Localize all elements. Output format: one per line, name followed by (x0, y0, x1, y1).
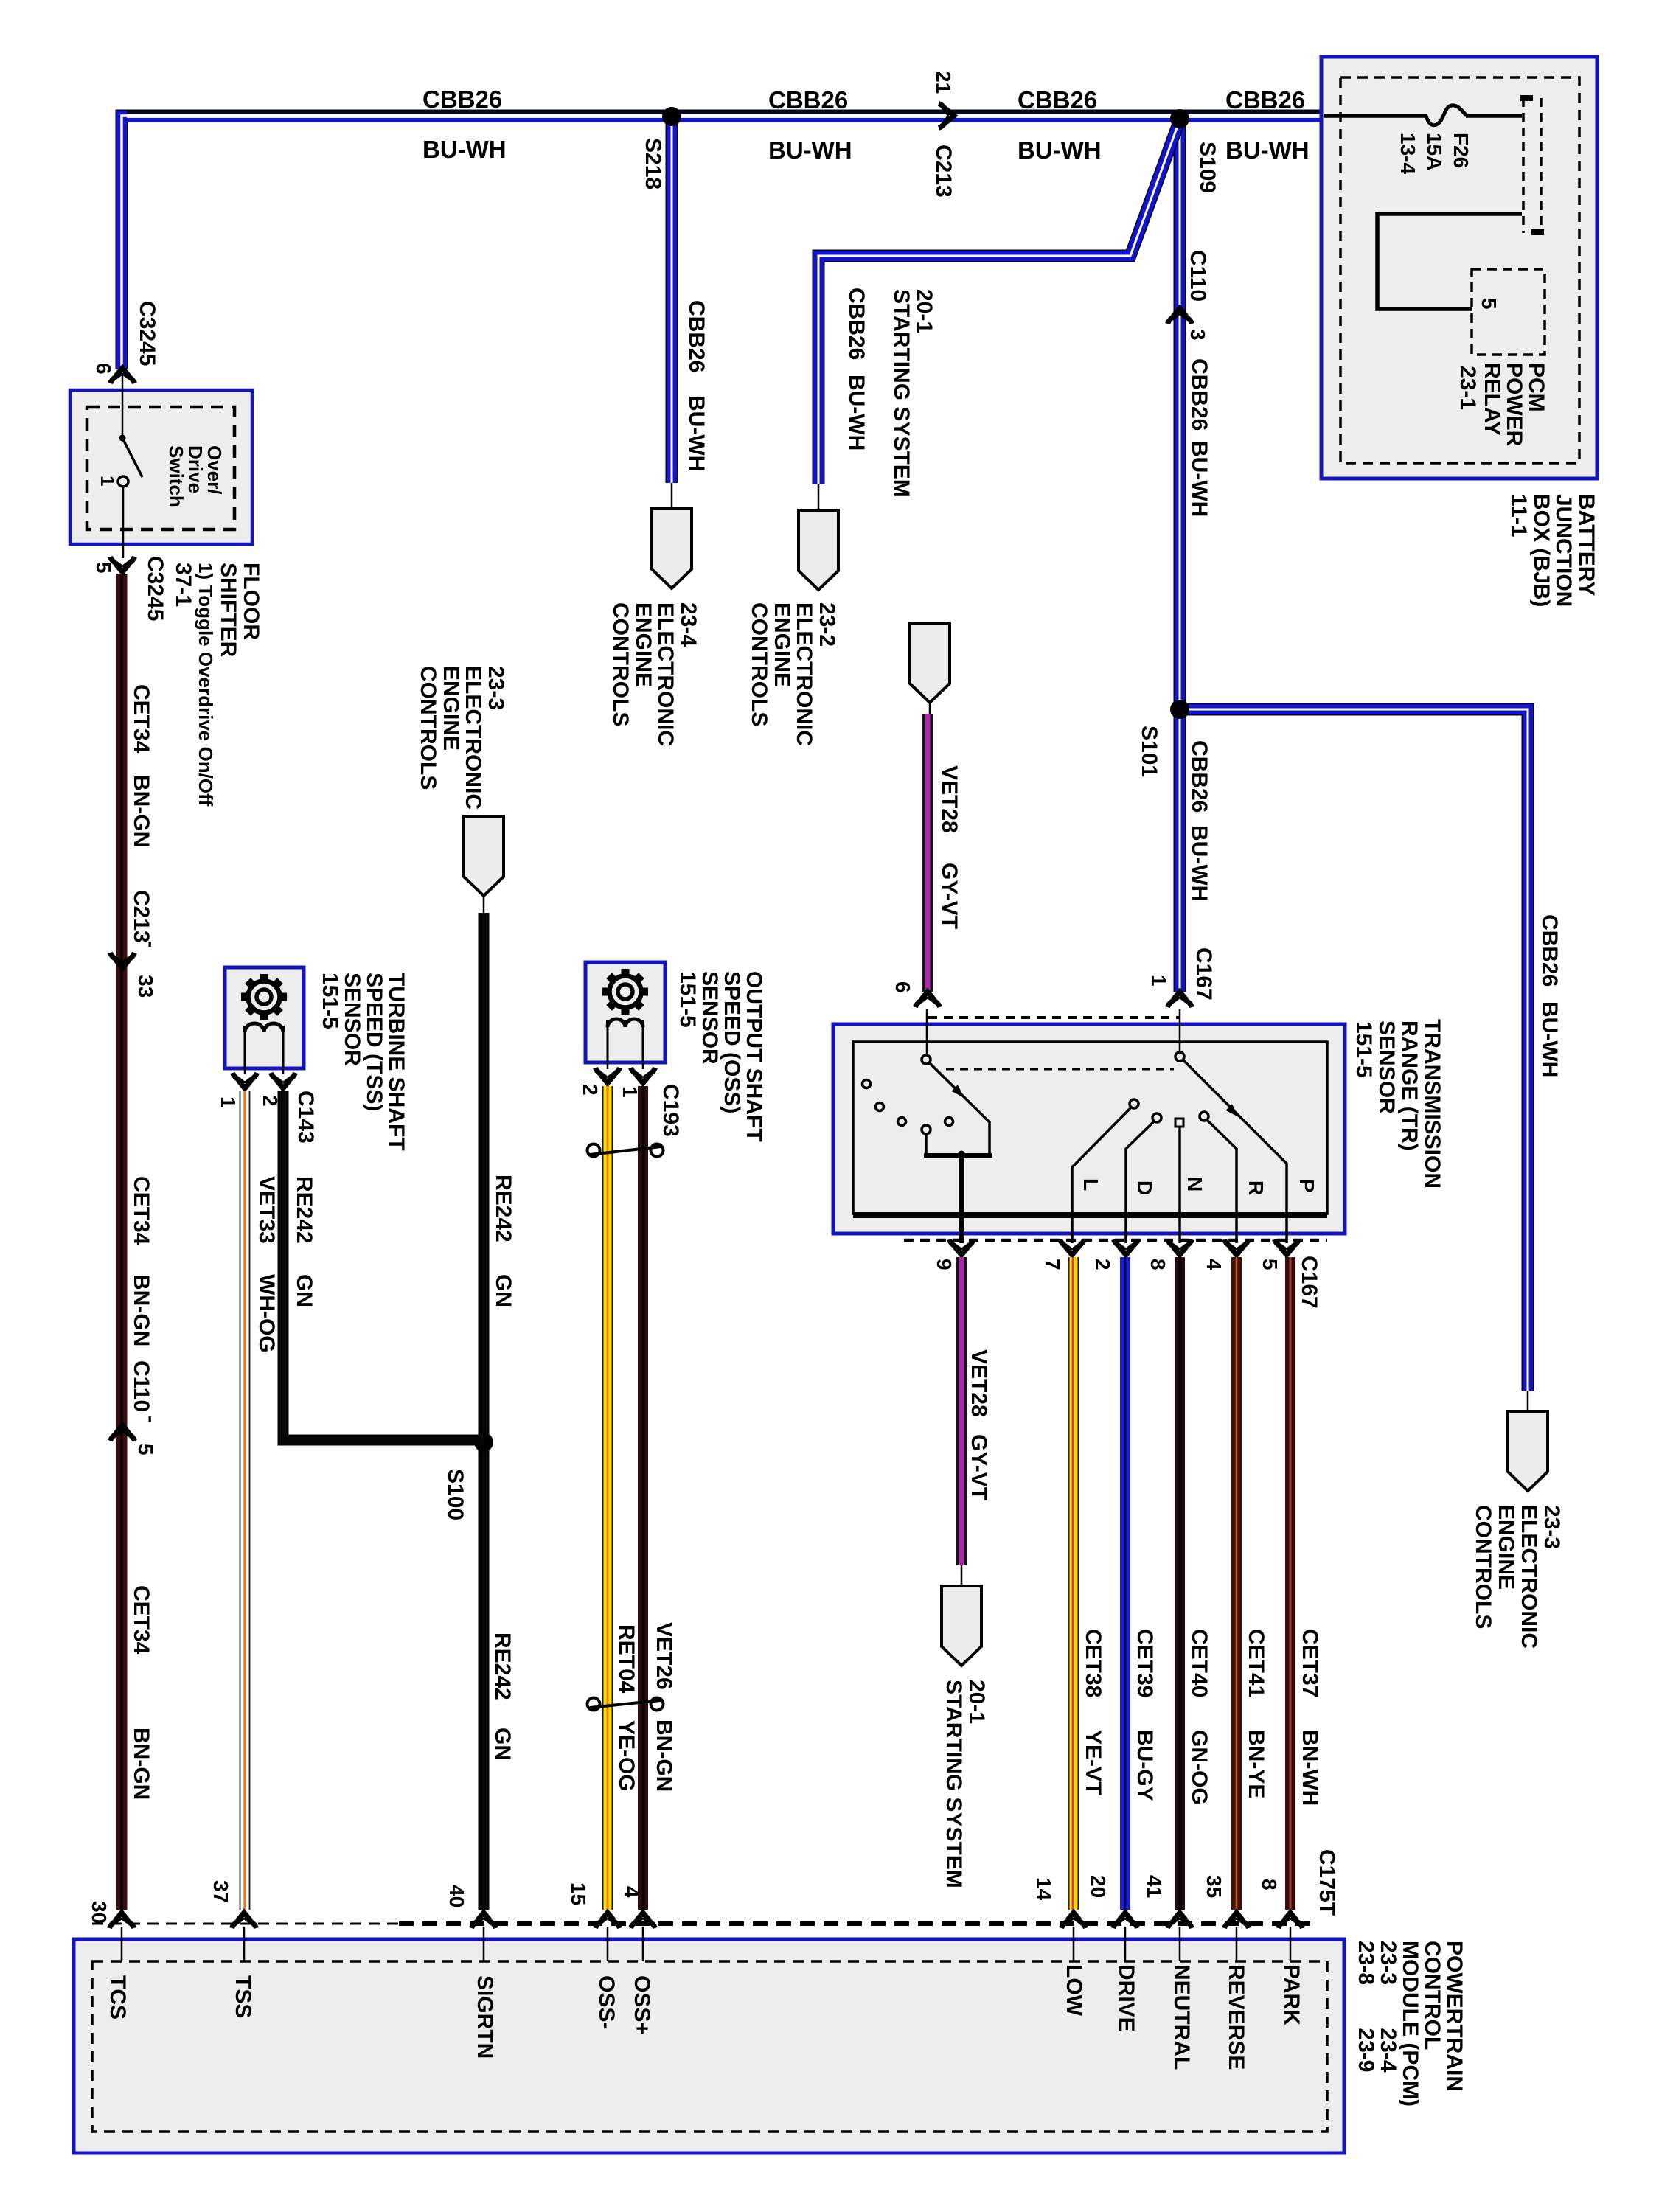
svg-text:S100: S100 (443, 1469, 467, 1520)
connector C3245 arrow pin 6 (111, 368, 135, 383)
TR wiper1 (929, 1062, 990, 1155)
junction S218 (662, 107, 681, 126)
svg-text:PARK: PARK (1279, 1964, 1304, 2025)
svg-text:SPEED (TSS): SPEED (TSS) (362, 973, 386, 1111)
gear icon OSS (593, 959, 658, 1024)
svg-text:SPEED (OSS): SPEED (OSS) (720, 971, 744, 1113)
svg-text:OSS+: OSS+ (630, 1975, 654, 2035)
svg-text:BU-GY: BU-GY (1133, 1730, 1157, 1801)
svg-text:1) Toggle Overdrive On/Off: 1) Toggle Overdrive On/Off (195, 563, 217, 807)
svg-text:S218: S218 (641, 138, 665, 189)
svg-text:VET26: VET26 (652, 1622, 676, 1690)
svg-text:15: 15 (567, 1882, 590, 1905)
svg-text:C175T: C175T (1315, 1849, 1339, 1916)
svg-text:23-3: 23-3 (484, 666, 508, 710)
fuse holder dashed bars (1522, 98, 1525, 233)
svg-text:BU-WH: BU-WH (1537, 1001, 1562, 1077)
svg-text:NEUTRAL: NEUTRAL (1169, 1964, 1194, 2070)
svg-text:5: 5 (92, 562, 115, 574)
svg-text:23-3: 23-3 (1540, 1505, 1564, 1549)
PCM power relay dashed box (1472, 269, 1545, 355)
svg-text:SENSOR: SENSOR (698, 971, 722, 1065)
coil TSS (245, 1023, 283, 1032)
svg-text:CBB26: CBB26 (1537, 914, 1562, 987)
svg-text:RET04: RET04 (614, 1624, 639, 1694)
svg-text:CET34: CET34 (129, 684, 153, 754)
svg-text:-: - (140, 941, 163, 947)
svg-text:L: L (1079, 1178, 1102, 1191)
switch pivot (119, 435, 126, 442)
dashed line C167 above TR (928, 1016, 1180, 1019)
svg-text:CBB26: CBB26 (684, 300, 709, 372)
svg-text:37: 37 (209, 1880, 232, 1903)
svg-text:PCM: PCM (1524, 363, 1548, 412)
svg-text:ELECTRONIC: ELECTRONIC (461, 666, 485, 810)
flag 20-1 starting system bottom (942, 1586, 981, 1666)
svg-text:7: 7 (1041, 1259, 1064, 1270)
wire RE242 GN main vertical (479, 913, 490, 1910)
svg-text:C143: C143 (293, 1091, 318, 1144)
TR dashed linkage (946, 1068, 1174, 1071)
wire CET38 YE-VT (1073, 1257, 1074, 1910)
svg-text:CBB26: CBB26 (422, 86, 502, 113)
thin link 23-2 branch to flag (818, 484, 820, 510)
svg-text:11-1: 11-1 (1506, 494, 1531, 537)
wire into fuse F26 (1324, 114, 1427, 118)
svg-text:4: 4 (1203, 1259, 1225, 1270)
svg-text:Switch: Switch (165, 445, 187, 507)
flag 20-1 starting system top (910, 623, 950, 703)
svg-text:DRIVE: DRIVE (1114, 1964, 1138, 2032)
svg-text:13-4: 13-4 (1397, 133, 1419, 174)
svg-text:23-3 23-4: 23-3 23-4 (1376, 1941, 1400, 2073)
svg-text:14: 14 (1032, 1877, 1055, 1901)
thin link S218 to flag (671, 483, 673, 509)
svg-text:YE-OG: YE-OG (614, 1720, 639, 1792)
TR unused contacts (863, 1080, 871, 1088)
wire RE242 GN TSS branch (283, 1091, 484, 1440)
wire CBB26 BU-WH from S101 right and down to 23-3 flag (1183, 709, 1528, 1391)
svg-text:TSS: TSS (231, 1975, 255, 2018)
svg-text:20-1: 20-1 (912, 289, 936, 333)
TR wiper2 (1183, 1060, 1287, 1243)
flag 23-2 (799, 510, 838, 590)
svg-text:ENGINE: ENGINE (631, 602, 655, 687)
svg-text:BU-WH: BU-WH (422, 136, 507, 163)
svg-text:GY-VT: GY-VT (967, 1434, 991, 1500)
svg-text:R: R (1245, 1180, 1267, 1195)
svg-text:BN-YE: BN-YE (1244, 1730, 1268, 1798)
svg-text:LOW: LOW (1062, 1964, 1086, 2017)
svg-text:RE242: RE242 (292, 1176, 316, 1244)
TR pin9 line (959, 1155, 964, 1243)
svg-text:BN-WH: BN-WH (1298, 1730, 1322, 1806)
svg-text:MODULE (PCM): MODULE (PCM) (1398, 1941, 1422, 2107)
svg-text:OUTPUT SHAFT: OUTPUT SHAFT (742, 971, 766, 1142)
svg-text:5: 5 (1478, 298, 1500, 310)
svg-text:35: 35 (1203, 1875, 1225, 1898)
svg-text:GY-VT: GY-VT (937, 863, 961, 929)
svg-text:BU-WH: BU-WH (1187, 825, 1211, 901)
Over/Drive Switch box (70, 390, 252, 544)
svg-text:1: 1 (217, 1096, 240, 1108)
svg-text:6: 6 (891, 981, 914, 993)
TR pin6 stub (926, 1009, 928, 1057)
svg-text:CONTROL: CONTROL (1420, 1941, 1444, 2050)
svg-text:23-4: 23-4 (676, 602, 700, 647)
wire VET28 GY-VT upper (922, 714, 933, 992)
svg-text:SENSOR: SENSOR (340, 973, 364, 1066)
TR wiper2 contact (1175, 1052, 1184, 1061)
svg-text:GN: GN (292, 1274, 316, 1307)
svg-text:N: N (1183, 1177, 1206, 1192)
svg-text:RANGE (TR): RANGE (TR) (1397, 1020, 1422, 1151)
svg-text:C167: C167 (1192, 947, 1216, 1001)
svg-text:S109: S109 (1195, 142, 1220, 193)
svg-text:C3245: C3245 (143, 556, 167, 621)
svg-text:37-1: 37-1 (171, 563, 195, 607)
svg-text:WH-OG: WH-OG (254, 1274, 279, 1353)
wire CET41 BN-YE (1231, 1257, 1242, 1910)
svg-text:BU-WH: BU-WH (1225, 136, 1310, 164)
wire CBB26 BU-WH top horizontal + left vertical (122, 112, 1324, 369)
thin link right 23-3 flag (1527, 1391, 1529, 1411)
svg-text:VET33: VET33 (254, 1176, 279, 1244)
svg-text:SIGRTN: SIGRTN (473, 1975, 497, 2059)
wire CBB26 BU-WH S218 branch vertical (666, 118, 678, 483)
svg-text:CET37: CET37 (1298, 1629, 1322, 1697)
svg-text:CET40: CET40 (1187, 1629, 1211, 1697)
connector C213 on top wire, arrow pointing right (939, 104, 954, 128)
svg-text:ELECTRONIC: ELECTRONIC (792, 602, 816, 746)
svg-text:F26: F26 (1450, 133, 1472, 168)
svg-text:151-5: 151-5 (675, 971, 700, 1028)
relay feed wire (1377, 214, 1522, 309)
svg-text:151-5: 151-5 (318, 973, 342, 1029)
svg-text:CET34: CET34 (129, 1585, 153, 1655)
coil OSS (608, 1019, 643, 1027)
svg-text:CONTROLS: CONTROLS (747, 602, 771, 726)
svg-text:CBB26: CBB26 (844, 288, 869, 360)
svg-text:P: P (1295, 1179, 1318, 1193)
flag 23-4 (652, 509, 692, 588)
svg-text:8: 8 (1258, 1879, 1281, 1891)
svg-text:151-5: 151-5 (1352, 1021, 1376, 1078)
svg-text:CONTROLS: CONTROLS (1471, 1505, 1495, 1629)
svg-text:BU-WH: BU-WH (1187, 441, 1211, 517)
svg-text:8: 8 (1147, 1259, 1169, 1270)
wire CET34 BN-GN left vertical (116, 574, 128, 1910)
twisted pair symbol upper (588, 1144, 664, 1157)
svg-text:5: 5 (134, 1444, 157, 1455)
junction S101 (1170, 700, 1189, 719)
svg-text:ELECTRONIC: ELECTRONIC (1517, 1505, 1541, 1649)
fuse F26 (1426, 105, 1467, 125)
svg-text:40: 40 (445, 1885, 468, 1907)
svg-text:CET41: CET41 (1244, 1629, 1268, 1697)
svg-text:BOX (BJB): BOX (BJB) (1529, 494, 1554, 607)
svg-text:C213: C213 (931, 145, 956, 198)
svg-text:6: 6 (92, 363, 115, 375)
svg-text:3: 3 (1186, 329, 1209, 341)
svg-text:POWERTRAIN: POWERTRAIN (1442, 1941, 1467, 2092)
connector C3245 arrow pin 5 below switch (111, 557, 135, 572)
svg-text:GN: GN (491, 1274, 515, 1307)
TR L branch (1130, 1099, 1138, 1108)
TR sensor box (833, 1024, 1345, 1234)
switch contact circle (118, 476, 128, 487)
svg-text:VET28: VET28 (937, 765, 961, 833)
svg-text:CBB26: CBB26 (1187, 358, 1211, 431)
svg-text:ENGINE: ENGINE (1494, 1505, 1518, 1590)
wire VET28 GY-VT lower (956, 1257, 967, 1565)
svg-text:33: 33 (134, 975, 157, 998)
svg-text:REVERSE: REVERSE (1224, 1964, 1248, 2070)
svg-text:20: 20 (1087, 1875, 1110, 1898)
svg-text:21: 21 (932, 71, 955, 94)
dashed line C167 below TR (904, 1239, 1327, 1242)
svg-text:1: 1 (97, 476, 119, 486)
svg-text:BU-WH: BU-WH (1018, 136, 1102, 164)
svg-text:CBB26: CBB26 (1187, 740, 1211, 813)
svg-text:CBB26: CBB26 (768, 86, 848, 114)
connector C167 arrow at TR pin 6 (916, 992, 940, 1007)
wire RET04 YE-OG (602, 1086, 613, 1910)
svg-text:ENGINE: ENGINE (439, 666, 463, 751)
wire CBB26 BU-WH S109 vertical to TR sensor (1174, 118, 1186, 992)
BJB box (1321, 57, 1597, 479)
svg-text:23-2: 23-2 (815, 602, 839, 647)
TR D branch (1152, 1113, 1161, 1122)
svg-text:23-8 23-9: 23-8 23-9 (1354, 1941, 1378, 2072)
junction S109 (1170, 109, 1189, 128)
svg-text:RE242: RE242 (490, 1632, 515, 1700)
svg-text:VET28: VET28 (967, 1349, 991, 1417)
svg-text:CBB26: CBB26 (1225, 86, 1305, 114)
svg-text:20-1: 20-1 (964, 1680, 989, 1724)
svg-text:BN-GN: BN-GN (129, 1728, 153, 1800)
svg-text:GN-OG: GN-OG (1187, 1730, 1211, 1805)
svg-text:YE-VT: YE-VT (1081, 1730, 1105, 1795)
PCM wire stubs (122, 1927, 1290, 1961)
wire VET26 BN-GN (638, 1086, 648, 1910)
TSS sensor box (225, 967, 304, 1068)
svg-text:TURBINE SHAFT: TURBINE SHAFT (384, 973, 408, 1151)
svg-text:C167: C167 (1297, 1256, 1321, 1309)
switch wire through box (122, 375, 124, 438)
connector C143 arrows (244, 1068, 246, 1074)
PCM dashed connector line (92, 1923, 399, 1925)
svg-text:BU-WH: BU-WH (768, 136, 852, 164)
svg-text:BN-GN: BN-GN (652, 1719, 676, 1792)
svg-text:1: 1 (1147, 975, 1170, 987)
connector C110 arrow on S109 wire (1168, 308, 1192, 324)
TR pin1 stub (1179, 1009, 1181, 1054)
svg-text:4: 4 (620, 1886, 643, 1898)
TR bottom connector arrows (950, 1239, 974, 1255)
flag 23-3 left (464, 816, 504, 896)
svg-text:5: 5 (1259, 1259, 1281, 1270)
svg-text:RELAY: RELAY (1480, 363, 1504, 436)
svg-text:OSS-: OSS- (594, 1975, 619, 2029)
svg-text:BU-WH: BU-WH (684, 395, 709, 471)
svg-text:ENGINE: ENGINE (770, 602, 794, 687)
TR wiper1 contact (922, 1055, 931, 1064)
gear icon TSS (232, 964, 296, 1029)
svg-text:SENSOR: SENSOR (1374, 1020, 1399, 1114)
OSS sensor box (585, 962, 665, 1062)
svg-text:JUNCTION: JUNCTION (1551, 494, 1576, 607)
svg-text:C3245: C3245 (135, 301, 159, 366)
svg-text:BN-GN: BN-GN (129, 1274, 153, 1346)
wire CBB26 BU-WH diagonal from S109 to 23-2 flag (818, 124, 1178, 484)
svg-text:-: - (140, 1416, 163, 1422)
wire CET39 BU-GY (1120, 1257, 1130, 1910)
svg-text:CONTROLS: CONTROLS (608, 602, 633, 726)
svg-text:CET38: CET38 (1081, 1629, 1105, 1697)
TR bracket (924, 1153, 992, 1158)
svg-text:SHIFTER: SHIFTER (216, 563, 240, 658)
svg-text:BATTERY: BATTERY (1574, 494, 1599, 596)
svg-text:D: D (1133, 1180, 1156, 1195)
svg-text:C110: C110 (1186, 250, 1210, 302)
twisted pair symbol lower (588, 1698, 664, 1711)
connector C167 arrow at TR pin 1 (1168, 992, 1192, 1007)
connector C193 arrows (607, 1062, 609, 1069)
svg-text:BN-GN: BN-GN (129, 775, 153, 847)
svg-text:RE242: RE242 (491, 1175, 515, 1242)
switch blade (122, 438, 142, 477)
svg-text:FLOOR: FLOOR (239, 563, 263, 640)
svg-text:S101: S101 (1137, 726, 1161, 777)
svg-text:BU-WH: BU-WH (844, 375, 869, 451)
svg-text:2: 2 (1091, 1259, 1114, 1270)
svg-text:CET39: CET39 (1133, 1629, 1157, 1697)
TR R branch (1200, 1112, 1208, 1121)
flag 23-3 right (1508, 1411, 1548, 1491)
svg-text:15A: 15A (1423, 133, 1446, 170)
svg-text:GN: GN (490, 1728, 515, 1761)
svg-text:CONTROLS: CONTROLS (416, 666, 440, 790)
wire VET33 WH-OG (240, 1091, 250, 1910)
TR N branch (1175, 1119, 1183, 1127)
svg-text:ELECTRONIC: ELECTRONIC (653, 602, 678, 746)
PCM box (74, 1939, 1344, 2153)
wire CET40 GN-OG (1175, 1257, 1185, 1910)
wire CET37 BN-WH (1285, 1257, 1295, 1910)
junction S100 (474, 1433, 493, 1452)
svg-text:23-1: 23-1 (1455, 366, 1480, 410)
svg-text:POWER: POWER (1502, 363, 1526, 447)
svg-text:STARTING SYSTEM: STARTING SYSTEM (889, 289, 914, 498)
svg-text:30: 30 (88, 1901, 111, 1924)
svg-text:C213: C213 (129, 890, 153, 943)
svg-text:CBB26: CBB26 (1018, 86, 1097, 114)
svg-text:2: 2 (579, 1084, 602, 1096)
svg-text:9: 9 (933, 1259, 956, 1270)
svg-text:TCS: TCS (105, 1975, 130, 2020)
svg-text:CET34: CET34 (129, 1176, 153, 1245)
svg-text:C110: C110 (129, 1360, 153, 1412)
svg-text:C193: C193 (658, 1084, 683, 1137)
svg-text:STARTING SYSTEM: STARTING SYSTEM (942, 1680, 966, 1888)
svg-text:41: 41 (1143, 1875, 1166, 1898)
svg-text:TRANSMISSION: TRANSMISSION (1420, 1019, 1444, 1189)
PCM connector arrows (110, 1913, 134, 1928)
